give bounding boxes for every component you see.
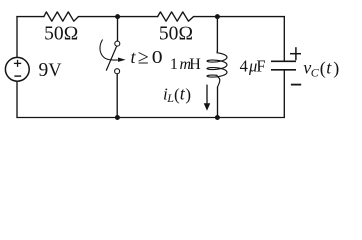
svg-text:): ) <box>185 85 191 104</box>
node junction bottom-switch <box>115 115 120 120</box>
svg-text:H: H <box>189 56 201 73</box>
current arrow iL(t) <box>206 85 208 104</box>
switch S1 bottom terminal circle <box>115 69 120 74</box>
wire left edge upper <box>16 17 18 57</box>
svg-text:1: 1 <box>170 56 178 73</box>
node junction bottom-inductor <box>215 115 220 120</box>
switch S1 arrowhead <box>118 58 126 62</box>
voltage source minus mark <box>14 75 21 77</box>
capacitor C1 bottom plate <box>271 69 296 71</box>
polarity minus (vC) <box>291 84 301 86</box>
wire inductor branch lower <box>217 87 219 118</box>
svg-text:9: 9 <box>39 60 49 81</box>
inductor L1 coil <box>207 51 227 87</box>
voltage source plus mark <box>14 60 21 67</box>
resistor R1 <box>44 12 79 21</box>
wire switch branch lower <box>116 74 118 118</box>
wire inductor branch upper <box>216 17 218 52</box>
svg-text:F: F <box>256 57 265 76</box>
switch S1 closing arc <box>100 40 118 61</box>
svg-text:V: V <box>48 60 61 82</box>
wire top rail middle segment <box>78 16 157 18</box>
voltage source V1 circle <box>5 57 29 81</box>
wire left edge lower <box>16 82 18 118</box>
resistor R2 <box>158 12 194 21</box>
wire bottom rail <box>17 117 284 119</box>
svg-text:50Ω: 50Ω <box>44 23 78 44</box>
svg-text:≥: ≥ <box>138 47 149 69</box>
wire top rail left segment <box>17 16 44 18</box>
wire right edge upper (to capacitor) <box>283 17 285 61</box>
svg-text:): ) <box>333 58 339 79</box>
svg-text:4: 4 <box>240 57 248 76</box>
svg-text:0: 0 <box>152 48 163 68</box>
wire right edge lower (from capacitor) <box>283 70 285 117</box>
wire switch branch upper <box>117 17 119 41</box>
switch S1 blade <box>106 46 117 71</box>
node junction top-switch <box>115 14 120 19</box>
node junction top-inductor <box>215 14 220 19</box>
svg-text:(: ( <box>320 58 326 79</box>
svg-text:L: L <box>166 91 174 105</box>
wire top rail right segment <box>194 16 285 18</box>
switch S1 top terminal circle <box>115 41 120 46</box>
capacitor C1 top plate <box>271 60 296 62</box>
svg-text:50Ω: 50Ω <box>159 23 193 44</box>
polarity plus (vC) <box>290 47 301 60</box>
svg-text:C: C <box>311 66 320 80</box>
